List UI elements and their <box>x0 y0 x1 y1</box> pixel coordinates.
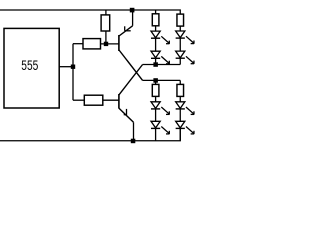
LED D4 <box>176 51 194 64</box>
wire 555 output <box>59 66 73 68</box>
wire R3 to node <box>105 31 107 44</box>
wire R7 to D7 <box>179 96 181 101</box>
wire lower branch horizontal <box>73 99 84 101</box>
LED D5 <box>151 102 169 115</box>
wire upper branch horizontal <box>73 43 83 45</box>
wire Q1 emitter to V+ <box>132 10 134 26</box>
LED D8 <box>176 121 194 134</box>
node Q2 emitter rail junction <box>131 139 136 144</box>
wire R2 to Q2 base <box>103 99 119 101</box>
wire V+ stub to R3 <box>105 10 107 15</box>
transistor Q1 PNP <box>119 26 143 81</box>
wire anode line stub to R7 <box>179 80 181 84</box>
resistor R4 upper-left LED column <box>152 14 159 26</box>
ground rail <box>0 128 180 140</box>
resistor R7 lower-right LED column <box>177 84 184 96</box>
wire D2 to cathode line <box>155 58 157 64</box>
node upper cathode junction <box>153 62 158 67</box>
node lower anode junction <box>153 78 158 83</box>
wire D7 to D8 <box>179 109 181 121</box>
wire Q2 emitter to ground <box>133 122 135 140</box>
resistor R3 pull-up <box>101 15 110 31</box>
wire D3 to D4 <box>179 38 181 51</box>
resistor R2 lower base <box>84 95 103 105</box>
LED D7 <box>176 102 194 115</box>
wire lower anode line <box>143 79 181 81</box>
wire D4 to cathode line <box>179 58 181 64</box>
resistor R5 upper-right LED column <box>177 14 184 26</box>
wire V+ stub to R4 <box>155 10 157 14</box>
wire D5 to D6 <box>155 109 157 121</box>
resistor R1 upper base <box>83 39 101 49</box>
resistor R6 lower-left LED column <box>152 84 159 96</box>
node Q1 emitter rail junction <box>130 8 135 13</box>
wire D8 to ground rail <box>179 128 181 140</box>
LED D6 <box>151 121 169 134</box>
node output junction <box>71 65 75 69</box>
LED D2 <box>151 51 169 64</box>
LED D3 <box>176 31 194 44</box>
wire R6 to D5 <box>155 96 157 101</box>
wire V+ corner to R5 (via rail downturn) <box>179 13 181 15</box>
transistor Q2 NPN <box>119 65 143 123</box>
wire R4 to D1 <box>155 26 157 31</box>
LED D1 <box>151 31 169 44</box>
wire R5 to D3 <box>179 26 181 31</box>
wire R1 to node <box>101 43 119 45</box>
node upper base junction <box>104 42 108 46</box>
wire anode line stub to R6 <box>155 80 157 84</box>
wire output branch vertical <box>72 44 74 100</box>
power rail V+ <box>0 10 180 14</box>
wire D6 to ground rail <box>155 128 157 140</box>
IC U1 555 <box>4 28 59 108</box>
wire D1 to D2 <box>155 38 157 51</box>
wire upper cathode line <box>143 64 181 66</box>
svg-text:555: 555 <box>21 58 38 73</box>
